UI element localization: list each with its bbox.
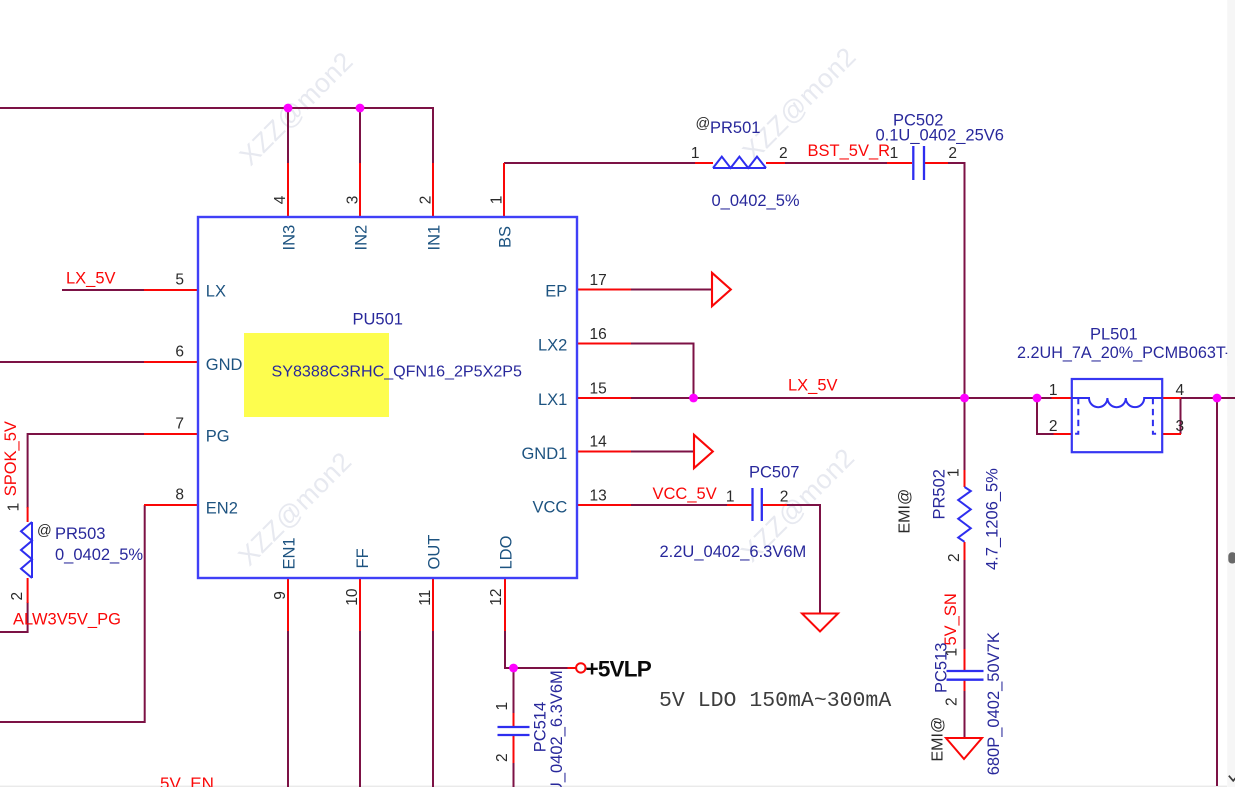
node junction IN2 [356,104,365,113]
svg-text:14: 14 [590,434,608,451]
PC514 pin1 stub [513,713,515,726]
bottom boundary line [0,786,1227,787]
scrollbar chevron [1229,776,1235,781]
wire PL501 pin3 up [1180,398,1182,434]
svg-text:LX_5V: LX_5V [788,377,838,395]
svg-text:10: 10 [344,588,361,606]
svg-text:2.2U_0402_6.3V6M: 2.2U_0402_6.3V6M [660,543,807,561]
pin numbers black [6,116,1185,762]
svg-text:5V_EN: 5V_EN [160,774,214,787]
wire LX_5V down right edge [1216,398,1218,786]
PC513 pin2 stub [964,681,966,692]
svg-text:13: 13 [590,488,607,505]
pin 1 stub BS [503,163,505,216]
svg-text:9: 9 [272,591,289,600]
resistor PR503 body [21,522,32,578]
off-page arrow EP [712,273,731,306]
svg-text:0.1U_0402_25V6: 0.1U_0402_25V6 [876,127,1004,145]
pin 16 stub LX2 [577,343,631,345]
wire stub to +5VLP circle [568,667,577,669]
wire EN2 down to edge [0,505,145,722]
wire PR502 to PC513 [964,559,966,650]
capacitor PC502 plates [913,146,924,180]
svg-text:PR503: PR503 [55,525,105,543]
pin 7 stub PG [144,433,198,435]
PR502 pin1 stub [964,470,966,487]
svg-text:1: 1 [890,145,899,162]
capacitor PC513 plates [947,671,984,680]
svg-text:2.2U_0402_6.3V6M: 2.2U_0402_6.3V6M [548,670,566,787]
svg-text:680P_0402_50V7K: 680P_0402_50V7K [985,632,1003,775]
scrollbar thumb [1228,552,1235,563]
wire EP to arrow [630,289,712,291]
svg-text:PU501: PU501 [353,311,403,329]
off-page arrow GND1 [694,435,713,468]
net labels red [2,142,960,787]
yellow highlight [244,333,389,417]
svg-text:+5VLP: +5VLP [586,657,652,682]
svg-text:PR502: PR502 [931,469,949,519]
pin 5 stub LX [144,289,198,291]
svg-text:0_0402_5%: 0_0402_5% [55,546,143,564]
pin 14 stub GND1 [577,451,631,453]
svg-text:BS: BS [497,226,515,248]
svg-text:PC513: PC513 [933,643,951,693]
PR503 pin1 stub [27,507,29,522]
node junction LX2/LX1 [689,394,698,403]
svg-text:SPOK_5V: SPOK_5V [2,421,20,496]
capacitor PC514 plates [498,727,530,735]
PC507 pin1 stub [727,504,752,506]
svg-text:6: 6 [175,344,184,361]
svg-text:5V_SN: 5V_SN [942,593,960,645]
svg-text:16: 16 [590,326,607,343]
wire PC507 to ground [786,505,820,613]
svg-text:5V LDO 150mA~300mA: 5V LDO 150mA~300mA [659,689,891,713]
ground symbol PC513 [946,738,982,759]
svg-text:IN3: IN3 [281,225,299,251]
svg-text:2: 2 [1049,418,1058,435]
svg-text:2: 2 [418,196,435,205]
svg-text:LX_5V: LX_5V [66,270,116,288]
scrollbar track right [1227,0,1235,787]
svg-text:7: 7 [175,416,184,433]
svg-text:VCC_5V: VCC_5V [653,485,717,503]
PR501 pin2 stub [766,162,785,164]
svg-text:12: 12 [488,589,505,606]
wire LX_5V right of PL501 [1181,397,1235,399]
svg-text:1: 1 [1049,382,1058,399]
svg-text:2: 2 [494,753,511,762]
svg-text:LX2: LX2 [538,337,567,355]
svg-text:11: 11 [417,590,434,606]
PL501 pin4 stub [1162,397,1181,399]
svg-text:PC507: PC507 [749,463,799,481]
PR502 pin2 stub [964,542,966,560]
svg-text:GND1: GND1 [521,445,567,463]
svg-text:PR501: PR501 [710,119,760,137]
svg-text:OUT: OUT [426,535,444,570]
wire VCC to PC507 [630,504,728,506]
node junction PC514 tap [509,664,518,673]
watermark 1 [232,41,862,571]
svg-text:1: 1 [691,145,700,162]
pin 3 stub IN2 [359,163,361,216]
svg-text:4: 4 [1176,382,1185,399]
svg-text:3: 3 [345,196,362,205]
pin 4 stub IN3 [287,163,289,216]
svg-text:ALW3V5V_PG: ALW3V5V_PG [13,611,121,629]
wire PG to PR503 [28,434,145,508]
svg-text:2: 2 [779,145,788,162]
PL501 pin2 stub [1054,433,1073,435]
capacitor PC507 plates [753,488,762,521]
svg-text:EN1: EN1 [281,537,299,569]
wire PC502 to corner down to LX_5V [947,163,965,398]
pin 8 stub EN2 [144,504,198,506]
svg-text:17: 17 [590,272,607,289]
svg-text:LX: LX [206,283,226,301]
wire PR503 bottom to edge [0,602,28,632]
PR503 pin2 stub [27,578,29,603]
wire IN3 drop [287,108,289,164]
svg-text:1: 1 [489,196,506,205]
wire LX2 to LX1 join [630,344,694,399]
wire PR501 to PC502 [784,162,888,164]
PC514 pin2 stub [513,736,515,763]
svg-text:2: 2 [780,489,789,506]
PC507 pin2 stub [763,504,787,506]
wire PC513 to ground [964,690,966,739]
svg-text:@: @ [37,523,52,539]
svg-text:FF: FF [354,548,372,568]
pin 13 stub VCC [577,504,631,506]
pin 17 stub EP [577,289,631,291]
wire OUT down [432,630,434,787]
node junction PR502 tap [960,394,969,403]
off-page circle +5VLP [576,663,585,672]
pin 9 stub EN1 [287,578,289,631]
svg-text:SY8388C3RHC_QFN16_2P5X2P5: SY8388C3RHC_QFN16_2P5X2P5 [272,363,523,381]
IC pin names blue [206,225,568,570]
resistor PR502 body [958,487,971,542]
wire FF down [359,630,361,787]
svg-text:4: 4 [272,195,289,204]
svg-text:5: 5 [175,272,184,289]
PL501 pin3 stub [1162,433,1181,435]
svg-text:IN1: IN1 [426,225,444,251]
wire PR502 branch top [964,398,966,471]
svg-text:1: 1 [494,702,511,711]
inductor PL501 body [1072,379,1162,452]
svg-text:EN2: EN2 [206,499,238,517]
wire PC514 below [513,762,515,787]
pin 11 stub OUT [432,578,434,631]
svg-text:PL501: PL501 [1090,326,1138,344]
pin 12 stub LDO [504,578,506,631]
svg-text:GND: GND [206,356,243,374]
svg-text:EP: EP [545,283,567,301]
node junction right edge [1213,394,1222,403]
pin 2 stub IN1 [432,163,434,216]
pin 10 stub FF [359,578,361,631]
svg-text:EMI@: EMI@ [897,489,914,534]
PL501 pin1 stub [1052,397,1073,399]
svg-text:1: 1 [726,489,735,506]
svg-text:0_0402_5%: 0_0402_5% [712,192,800,210]
svg-text:3: 3 [1176,418,1185,435]
svg-text:15: 15 [590,381,607,398]
wire GND pin [0,361,145,363]
PC502 pin2 stub [925,162,948,164]
svg-text:LX1: LX1 [538,391,567,409]
svg-text:1: 1 [6,503,23,512]
node junction IN3 [284,104,293,113]
svg-text:EMI@: EMI@ [930,717,947,762]
wire IN1 drop [432,107,434,164]
svg-text:2: 2 [946,553,963,562]
wire EN1 down [287,630,289,787]
wire LDO to +5VLP [505,630,569,668]
pin 6 stub GND [144,361,198,363]
svg-text:2.2UH_7A_20%_PCMB063T-: 2.2UH_7A_20%_PCMB063T- [1017,344,1230,362]
wire LX_5V main [630,397,1052,399]
svg-text:2: 2 [944,697,961,706]
svg-text:BST_5V_R: BST_5V_R [808,142,891,160]
wire BS to PR501 [504,162,696,164]
PC502 pin1 stub [887,162,912,164]
PC513 pin1 stub [964,649,966,670]
wire PL501 pin2 branch [1037,398,1054,434]
svg-text:2: 2 [9,592,26,601]
svg-text:PC514: PC514 [532,702,550,752]
wire GND1 to arrow [630,451,694,453]
svg-text:LDO: LDO [498,535,516,569]
svg-text:2: 2 [948,145,957,162]
svg-text:8: 8 [175,487,184,504]
svg-text:4.7_1206_5%: 4.7_1206_5% [984,468,1002,570]
PR501 pin1 stub [695,162,713,164]
node junction PL501 pin2 tap [1033,394,1042,403]
svg-text:IN2: IN2 [353,225,371,251]
svg-text:PG: PG [206,428,230,446]
wire PC514 branch [513,668,515,714]
wire IN2 drop [359,108,361,164]
wire top horizontal IN net [0,107,433,109]
svg-text:VCC: VCC [532,498,567,516]
scrollbar cover over clipped text [1227,340,1235,366]
resistor PR501 body [713,157,766,168]
wire LX pin [62,289,145,291]
pin 15 stub LX1 [577,397,631,399]
ground symbol PC507 [802,614,838,632]
svg-text:@: @ [696,116,711,132]
op-amp U1 : IC body PU501 [198,217,577,578]
